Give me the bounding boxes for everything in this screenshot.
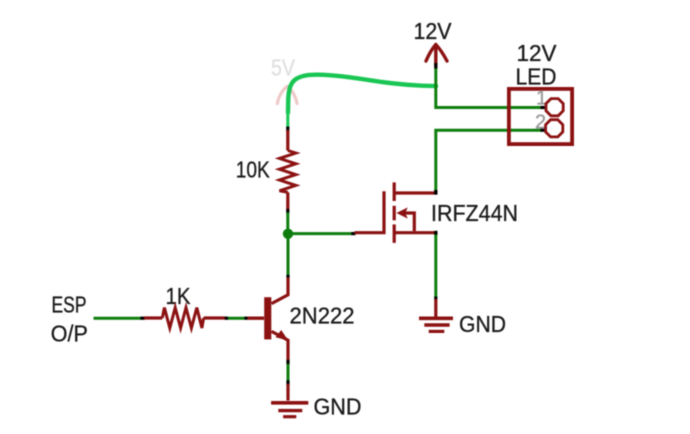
pin end GND (MOSFET side, black) [434,297,437,301]
pin end LED pin 2 (black) [541,129,547,132]
wire 10K bottom to junction [286,213,289,232]
connector 12V LED body (box) [509,89,572,144]
pad pin 1 (octagon) [546,99,563,116]
wire ESP output to R 1K [94,317,142,320]
wire junction down to BJT collector [287,234,290,276]
pin end 1K left (black) [140,317,144,320]
pin end MOSFET gate (black) [351,232,355,235]
svg-text:O/P: O/P [51,321,88,347]
svg-text:2N222: 2N222 [290,302,355,328]
pin end GND (BJT side, black) [286,380,289,385]
wire 12V vertical + to LED pin 1 [436,69,542,108]
wire 1K to BJT base [228,317,245,320]
pin end of 12V flag (black) [434,63,437,69]
BJT emitter arrow [276,330,289,341]
pin end LED pin 1 (black) [541,106,547,109]
wire junction to MOSFET gate (green part) [288,232,352,235]
svg-text:12V: 12V [414,18,453,44]
junction node (base of 10K / gate / collector) [283,229,293,239]
wire net 12V highlighted (bright green curve) [288,75,436,113]
wire net 12V highlighted lower stub [286,111,289,128]
svg-text:12V: 12V [517,40,558,66]
pin end 10K bottom (black) [286,209,289,214]
power flag 5V (ghost arrow) [277,86,297,103]
power flag 12V arrow [426,45,447,67]
resistor 1K (horizontal) [144,308,226,328]
svg-text:1K: 1K [166,283,192,309]
pin end BJT base (black) [244,317,247,320]
pad pin 2 (octagon) [546,120,563,137]
pin end BJT collector (black) [286,275,289,278]
svg-text:10K: 10K [236,156,271,182]
svg-text:IRFZ44N: IRFZ44N [431,200,518,226]
pin end 1K right (black) [225,317,229,320]
ground symbol (BJT emitter) [271,384,308,417]
svg-text:5V: 5V [271,55,296,81]
ground symbol (MOSFET source) [419,299,453,331]
net label ESP O/P [51,292,88,347]
svg-text:ESP: ESP [52,292,87,318]
resistor 10K (vertical) [280,130,296,210]
svg-text:GND: GND [459,311,506,337]
MOSFET body-diode arrow [396,207,407,218]
pin end MOSFET source (black) [434,231,437,235]
transistor IRFZ44N (N-channel MOSFET) [355,182,438,243]
svg-text:LED: LED [516,64,557,90]
label 12V LED (connector) [516,40,558,90]
pin end BJT emitter (black) [286,360,289,365]
pin end MOSFET drain (black) [434,190,437,195]
wire BJT emitter to GND [287,364,290,381]
pin end 10K top (black) [286,127,289,132]
wire LED pin 2 to MOSFET drain [436,130,542,191]
transistor 2N222 (NPN BJT) [248,278,289,361]
wire MOSFET source down to GND [434,235,437,298]
svg-text:GND: GND [314,393,362,419]
